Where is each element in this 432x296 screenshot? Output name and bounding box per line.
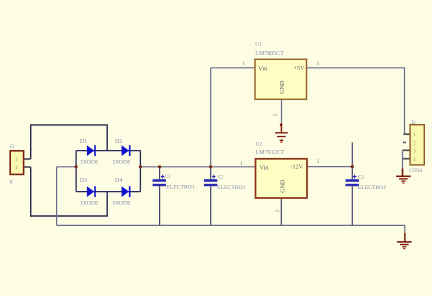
svg-text:D3: D3 <box>80 178 87 184</box>
svg-text:ELECTRO1: ELECTRO1 <box>358 185 387 191</box>
svg-text:U2: U2 <box>256 141 263 147</box>
svg-text:DIODE: DIODE <box>81 201 99 207</box>
svg-text:DIODE: DIODE <box>113 201 131 207</box>
svg-text:D2: D2 <box>115 139 122 145</box>
svg-text:1: 1 <box>242 61 245 67</box>
svg-text:Vin: Vin <box>258 65 267 72</box>
svg-text:C2: C2 <box>218 175 224 180</box>
svg-text:DIODE: DIODE <box>113 160 131 166</box>
svg-text:-12V: -12V <box>291 165 304 171</box>
svg-text:2: 2 <box>275 209 281 212</box>
svg-text:3: 3 <box>317 159 320 165</box>
svg-text:ELECTRO1: ELECTRO1 <box>166 184 195 190</box>
svg-text:DIODE: DIODE <box>81 160 99 166</box>
svg-text:Vin: Vin <box>260 164 269 171</box>
svg-text:1: 1 <box>240 161 243 167</box>
svg-text:LM7805CT: LM7805CT <box>255 51 284 57</box>
svg-text:CON4: CON4 <box>409 169 423 174</box>
svg-text:B: B <box>10 181 13 186</box>
svg-text:3: 3 <box>317 61 320 67</box>
svg-text:GND: GND <box>280 80 286 94</box>
svg-text:LM7912CT: LM7912CT <box>256 150 285 156</box>
svg-text:+5V: +5V <box>294 66 305 72</box>
svg-text:GND: GND <box>281 179 287 193</box>
svg-text:C3: C3 <box>358 176 364 181</box>
svg-text:ELECTRO1: ELECTRO1 <box>217 185 246 191</box>
svg-text:U1: U1 <box>255 42 262 48</box>
svg-text:D1: D1 <box>80 139 87 145</box>
svg-text:J1: J1 <box>10 144 15 150</box>
svg-text:2: 2 <box>273 113 279 116</box>
svg-text:C1: C1 <box>165 175 171 180</box>
svg-text:D4: D4 <box>115 178 122 184</box>
svg-text:J2: J2 <box>411 120 416 126</box>
